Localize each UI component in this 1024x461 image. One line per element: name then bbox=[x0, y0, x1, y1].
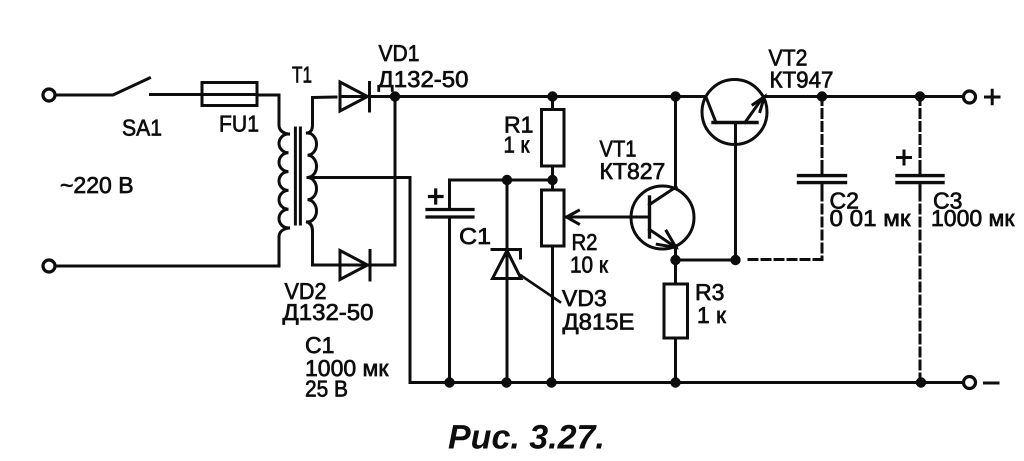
svg-text:Д132-50: Д132-50 bbox=[378, 66, 469, 92]
svg-text:10 к: 10 к bbox=[570, 252, 609, 278]
svg-text:С1: С1 bbox=[459, 223, 491, 249]
svg-text:Д815Е: Д815Е bbox=[563, 309, 635, 335]
svg-text:VD1: VD1 bbox=[379, 40, 420, 66]
svg-text:Д132-50: Д132-50 bbox=[283, 299, 374, 325]
svg-text:SA1: SA1 bbox=[122, 115, 162, 141]
svg-text:1000 мк: 1000 мк bbox=[931, 205, 1015, 231]
svg-text:1 к: 1 к bbox=[504, 132, 531, 158]
svg-text:25 В: 25 В bbox=[305, 376, 348, 402]
svg-text:1 к: 1 к bbox=[697, 302, 727, 328]
svg-text:VD3: VD3 bbox=[562, 285, 607, 311]
svg-text:КТ947: КТ947 bbox=[770, 67, 834, 93]
svg-text:Рис. 3.27.: Рис. 3.27. bbox=[448, 419, 605, 457]
svg-text:КТ827: КТ827 bbox=[600, 158, 666, 184]
svg-text:FU1: FU1 bbox=[219, 111, 259, 137]
svg-text:Т1: Т1 bbox=[292, 62, 312, 88]
svg-text:0 01 мк: 0 01 мк bbox=[830, 205, 912, 231]
svg-text:~220 В: ~220 В bbox=[60, 172, 134, 198]
